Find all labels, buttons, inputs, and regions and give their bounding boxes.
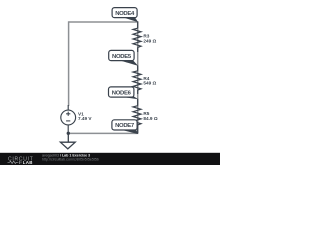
svg-text:249 Ω: 249 Ω [143,38,156,43]
node NODE5 [109,50,139,66]
watermark bar [0,153,220,165]
node NODE4 [112,8,138,23]
wire top [69,21,138,23]
node NODE7 [112,120,138,134]
label R3 value [143,38,156,43]
wire bottom [68,132,137,134]
label V1 name [78,111,84,116]
svg-text:NODE5: NODE5 [112,54,132,60]
label R4 value [143,81,156,86]
svg-text:NODE6: NODE6 [112,90,132,96]
svg-text:LAB: LAB [23,160,33,165]
voltage source V1 [61,105,76,133]
svg-text:549 Ω: 549 Ω [143,81,156,86]
wire left [68,21,70,106]
resistor R4 [133,66,141,95]
node NODE6 [109,87,139,99]
label V1 value [78,116,92,121]
svg-text:NODE7: NODE7 [115,123,135,129]
svg-text:84.9 Ω: 84.9 Ω [143,116,157,121]
resistor R5 [133,99,141,134]
label R5 value [143,116,157,121]
svg-text:NODE4: NODE4 [115,11,135,17]
resistor R3 [133,22,141,53]
svg-text:7.49 V: 7.49 V [78,116,92,121]
label R4 name [143,76,149,81]
label R5 name [143,111,149,116]
label R3 name [143,34,149,39]
svg-text:http://circuitlab.com/c/8rt5v5: http://circuitlab.com/c/8rt5v5r5e5t5b [42,158,99,162]
junction dot [67,132,70,135]
ground [60,133,75,149]
wire right [137,21,139,133]
